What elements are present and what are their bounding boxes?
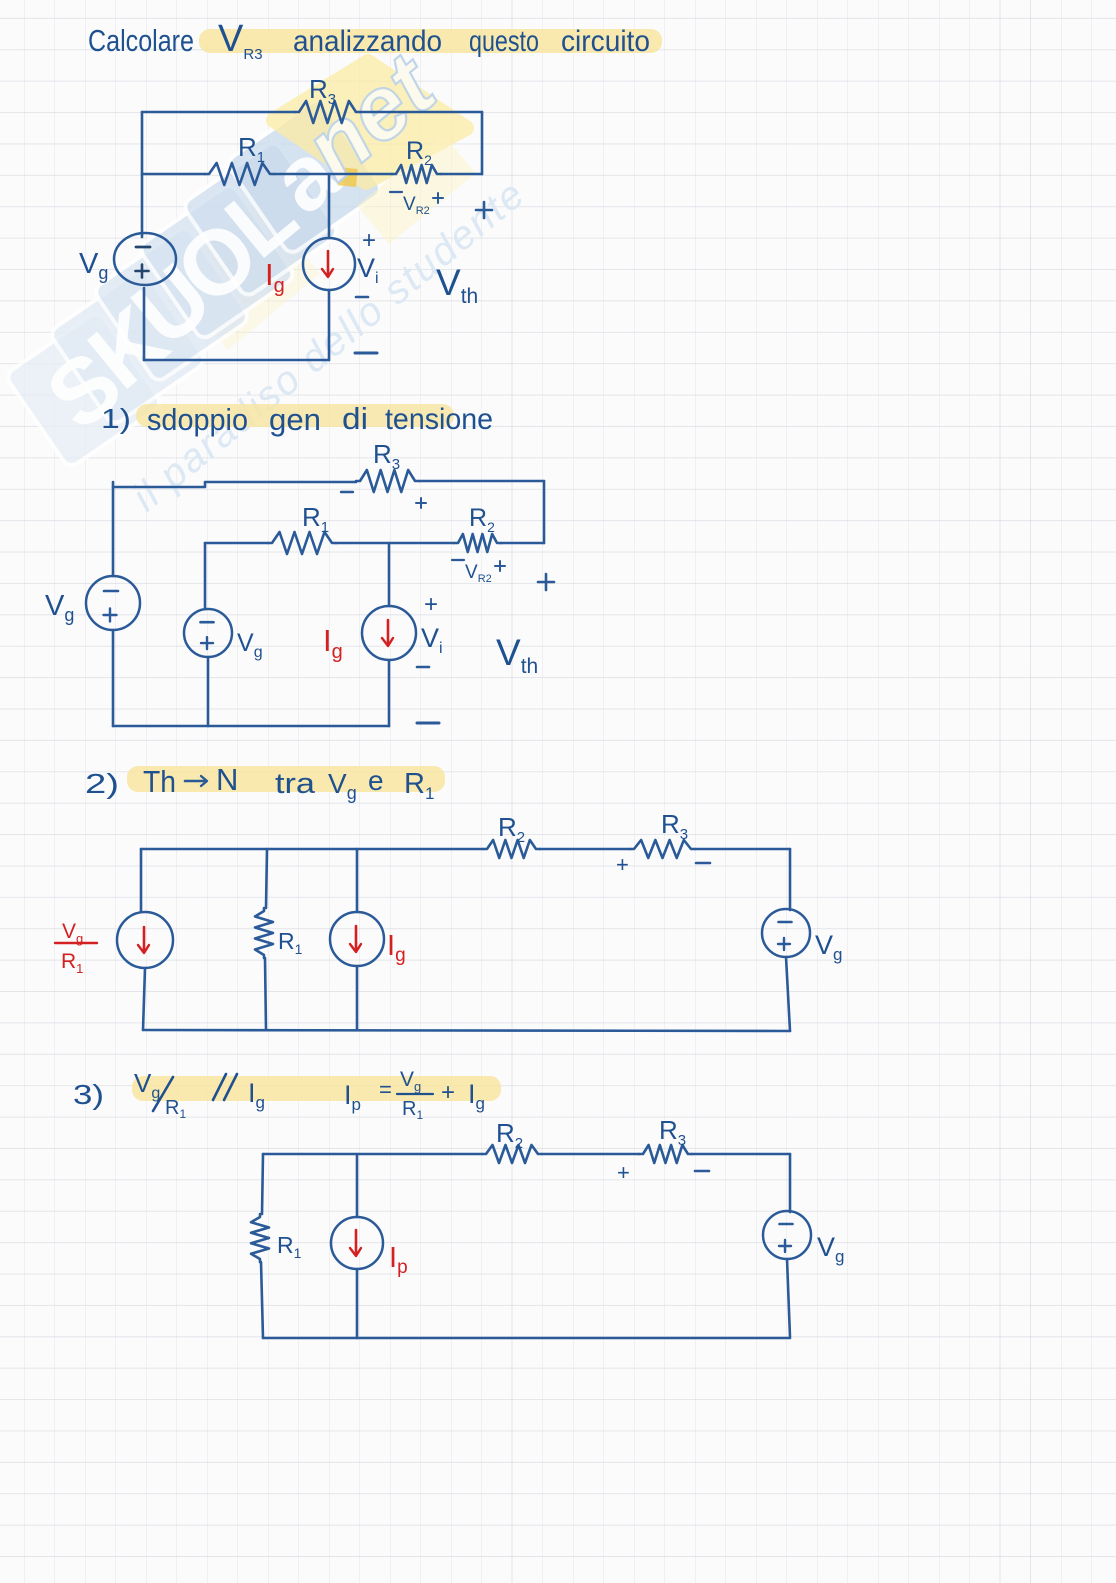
svg-text:Vth: Vth <box>496 632 538 678</box>
svg-text:Vi: Vi <box>357 253 379 287</box>
svg-text:Vg: Vg <box>817 1232 844 1266</box>
svg-text:Vi: Vi <box>421 623 443 657</box>
svg-text:+: + <box>362 227 376 254</box>
svg-text:Ip: Ip <box>389 1242 408 1278</box>
svg-text:R1: R1 <box>277 1232 302 1261</box>
svg-text:Vg: Vg <box>400 1068 421 1094</box>
svg-text:questo: questo <box>469 25 539 58</box>
svg-text:sdoppio: sdoppio <box>147 402 248 437</box>
svg-text:+: + <box>616 852 629 877</box>
svg-text:R1: R1 <box>278 928 303 957</box>
svg-text:Th: Th <box>143 764 176 799</box>
svg-text:R1: R1 <box>61 950 83 976</box>
svg-text:di: di <box>342 401 368 436</box>
svg-text:=: = <box>379 1077 392 1102</box>
svg-text:circuito: circuito <box>561 25 650 58</box>
svg-text:R2: R2 <box>469 504 495 535</box>
svg-text:N: N <box>216 762 238 797</box>
svg-text:3): 3) <box>73 1079 104 1110</box>
svg-text:R2: R2 <box>498 812 525 846</box>
svg-text:Vg: Vg <box>815 930 842 964</box>
svg-text:R3: R3 <box>373 439 400 473</box>
svg-text:gen: gen <box>269 402 321 437</box>
svg-text:+: + <box>617 1160 630 1185</box>
svg-text:R3: R3 <box>661 809 688 843</box>
svg-text:+: + <box>441 1079 455 1106</box>
svg-text:Vg: Vg <box>79 248 108 283</box>
svg-text:Vg: Vg <box>237 629 263 661</box>
svg-text:Vg: Vg <box>45 590 74 625</box>
svg-text:Vth: Vth <box>436 262 478 308</box>
svg-text:tensione: tensione <box>385 403 493 436</box>
svg-text:R1: R1 <box>402 1098 423 1122</box>
svg-text:VR2: VR2 <box>465 562 492 585</box>
svg-text:+: + <box>424 591 438 618</box>
svg-text:analizzando: analizzando <box>293 25 442 58</box>
svg-text:R2: R2 <box>496 1118 523 1152</box>
svg-text:tra: tra <box>275 768 316 800</box>
svg-text:R3: R3 <box>659 1115 686 1149</box>
svg-text:Ig: Ig <box>387 930 406 966</box>
svg-text:2): 2) <box>85 768 119 799</box>
svg-text:R1: R1 <box>302 502 329 536</box>
svg-text:Ig: Ig <box>323 623 343 663</box>
svg-text:Vg: Vg <box>134 1068 160 1102</box>
svg-text:Calcolare: Calcolare <box>88 23 194 58</box>
svg-text:1): 1) <box>101 403 131 434</box>
svg-text:e: e <box>368 765 384 796</box>
